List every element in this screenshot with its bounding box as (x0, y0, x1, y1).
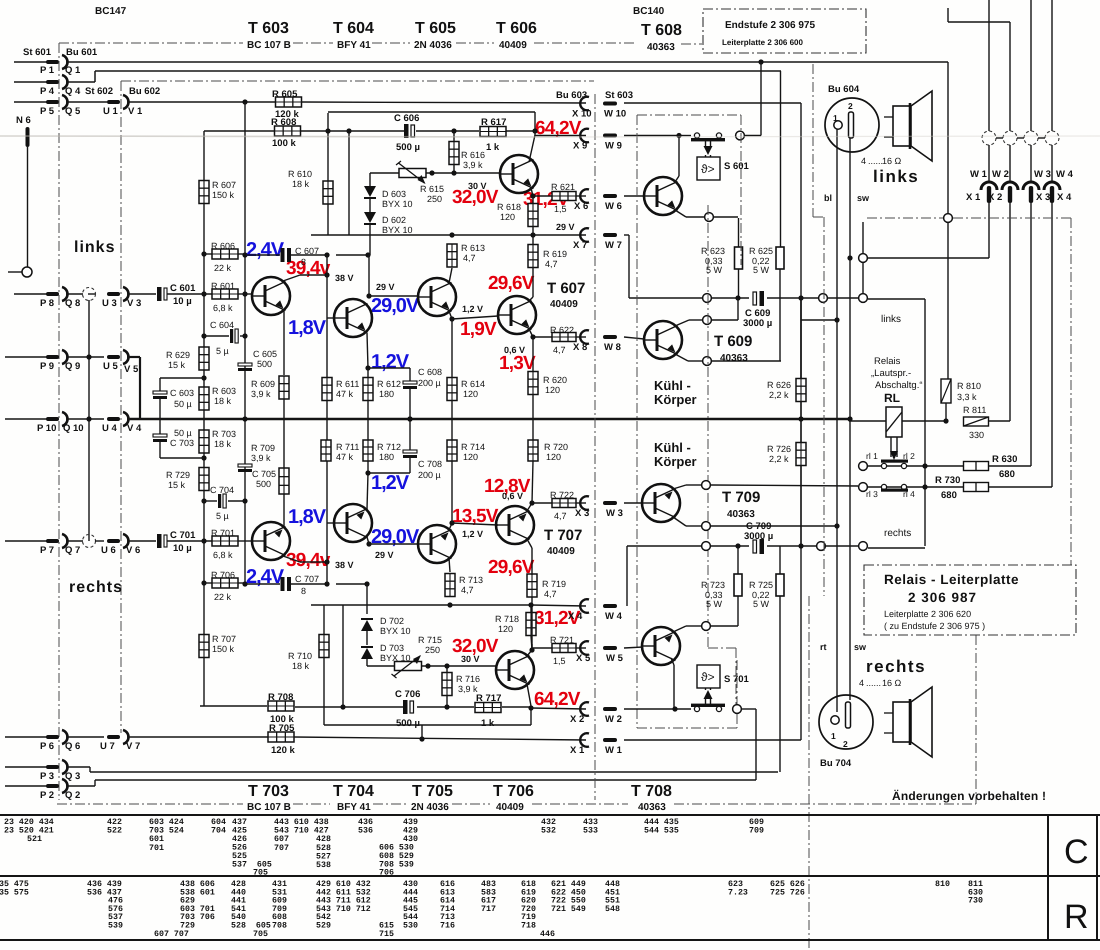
svg-text:W 3: W 3 (606, 508, 623, 519)
svg-text:1,5: 1,5 (553, 656, 566, 666)
svg-text:R 720: R 720 (544, 442, 568, 452)
svg-text:BYX 10: BYX 10 (382, 225, 413, 235)
resistor R719 (531, 644, 533, 650)
wire emitter row to T707 base (452, 523, 498, 525)
wire T705b collector to R713 (449, 558, 450, 572)
open node T709a emitter (702, 522, 711, 531)
vertical X1 top (988, 0, 990, 131)
wire T605 collector to R613 (449, 268, 452, 283)
svg-text:Q 2: Q 2 (65, 790, 80, 801)
chain line heatsink top (637, 114, 741, 116)
wire T707 collector (527, 539, 532, 548)
relay coil RL (886, 407, 902, 437)
node C606 R616 (451, 128, 456, 133)
svg-text:Q 6: Q 6 (65, 741, 80, 752)
svg-text:R 701: R 701 (211, 528, 235, 538)
svg-text:C 604: C 604 (210, 320, 234, 330)
svg-text:40363: 40363 (727, 509, 755, 520)
svg-text:533: 533 (583, 827, 598, 836)
chain line x809 lower (808, 596, 810, 948)
svg-text:721 549: 721 549 (551, 905, 586, 914)
wire T704 collector (367, 537, 369, 544)
wire T704 emitter up (367, 473, 368, 509)
svg-text:sw: sw (854, 642, 867, 652)
wire T703 collector to 38V node bottom (283, 556, 300, 562)
svg-text:V 4: V 4 (127, 423, 142, 434)
svg-text:18 k: 18 k (292, 661, 310, 671)
svg-text:R 722: R 722 (550, 490, 574, 500)
wire output rail top (629, 297, 749, 299)
DIN socket Bu604 (825, 98, 879, 152)
svg-text:5 µ: 5 µ (216, 346, 229, 356)
chain line heatsink right top (740, 115, 742, 265)
svg-text:150 k: 150 k (212, 190, 235, 200)
svg-text:1,8V: 1,8V (288, 317, 327, 339)
svg-text:C 707: C 707 (295, 574, 319, 584)
svg-text:Q 8: Q 8 (65, 298, 80, 309)
node T607 emitter (530, 334, 535, 339)
svg-text:30 V: 30 V (468, 181, 487, 191)
svg-text:rl 3: rl 3 (866, 489, 878, 499)
svg-text:120: 120 (498, 624, 513, 634)
svg-text:R 619: R 619 (543, 249, 567, 259)
wire W1 row (624, 739, 801, 741)
node T707 emitter (529, 500, 534, 505)
svg-text:BC147: BC147 (95, 6, 127, 17)
table bottom line (0, 939, 1100, 941)
wire W5 row to T709b base (624, 647, 643, 648)
svg-text:X 8: X 8 (573, 342, 587, 353)
wire W2 riser to Q2 row (741, 708, 756, 710)
svg-text:3,9 k: 3,9 k (458, 684, 478, 694)
node R708 row x343 (340, 704, 345, 709)
relay board outline links (868, 298, 925, 300)
wire diode string to pot row (366, 659, 368, 666)
wire X2 row (531, 708, 586, 709)
resistor R721 (532, 647, 552, 649)
svg-text:708: 708 (272, 922, 287, 931)
svg-text:120: 120 (463, 452, 478, 462)
svg-text:C 605: C 605 (253, 349, 277, 359)
svg-text:BFY 41: BFY 41 (337, 40, 371, 51)
diode D703 (361, 648, 373, 659)
svg-text:2,4V: 2,4V (246, 239, 285, 261)
resistor R606 (204, 253, 213, 255)
svg-text:Q 1: Q 1 (65, 65, 81, 76)
svg-text:X 10: X 10 (572, 109, 592, 120)
svg-text:1: 1 (833, 113, 838, 123)
svg-text:W 1: W 1 (970, 169, 988, 180)
svg-text:40409: 40409 (499, 40, 527, 51)
svg-text:1,8V: 1,8V (288, 506, 327, 528)
resistor R618 (532, 196, 534, 203)
Relais-Leiterplatte box (864, 565, 1076, 635)
chain line bottom (57, 803, 243, 805)
svg-text:40363: 40363 (647, 42, 675, 53)
node R613 top on 29V bus (449, 232, 454, 237)
svg-text:T 605: T 605 (415, 20, 456, 37)
wire Q7 to U6 (66, 540, 83, 542)
svg-text:C 606: C 606 (394, 113, 419, 124)
svg-text:X 5: X 5 (576, 653, 591, 664)
svg-text:U 3: U 3 (102, 298, 117, 309)
wire x343 riser bottom (342, 605, 344, 707)
capacitor C705 (238, 464, 252, 467)
svg-text:U 1: U 1 (103, 106, 119, 117)
svg-text:725 726: 725 726 (770, 888, 805, 897)
wire V1 rail to R605 (127, 101, 276, 103)
svg-text:R 626: R 626 (767, 380, 791, 390)
resistor R701 (212, 536, 238, 546)
wire x327 column top (326, 255, 328, 419)
svg-text:rechts: rechts (69, 579, 123, 596)
svg-text:U 6: U 6 (101, 545, 116, 556)
node Q10 junction (86, 416, 91, 421)
svg-text:T 609: T 609 (714, 333, 752, 350)
svg-text:C 607: C 607 (295, 246, 319, 256)
svg-text:18 k: 18 k (214, 439, 232, 449)
svg-text:250: 250 (427, 194, 442, 204)
svg-text:R 625: R 625 (749, 246, 773, 256)
chain line right stub bottom (975, 635, 977, 804)
svg-text:P 8: P 8 (40, 298, 54, 309)
wire 29V row bottom to T705 base (369, 543, 418, 545)
svg-text:R 623: R 623 (701, 246, 725, 256)
svg-text:Bu 601: Bu 601 (66, 47, 98, 58)
wire W2 row (624, 708, 691, 710)
wire R615 row (370, 172, 399, 174)
svg-text:X 1: X 1 (570, 745, 585, 756)
node x245 junctions (242, 252, 247, 257)
svg-text:1,2 V: 1,2 V (462, 304, 483, 314)
svg-text:R 712: R 712 (377, 442, 401, 452)
svg-text:T 603: T 603 (248, 20, 289, 37)
svg-text:718: 718 (521, 922, 536, 931)
resistor R630 (964, 462, 989, 471)
node T606 emitter (530, 193, 535, 198)
resistor R603 (199, 387, 209, 410)
svg-text:R 718: R 718 (495, 614, 519, 624)
svg-text:2N 4036: 2N 4036 (411, 802, 449, 813)
svg-text:Körper: Körper (654, 392, 697, 407)
transistor T709 upper (642, 484, 680, 522)
svg-text:BC 107 B: BC 107 B (247, 40, 291, 51)
chain line top (59, 42, 243, 44)
svg-text:446: 446 (540, 930, 555, 939)
wire 29V row to T605 base (369, 295, 418, 297)
svg-text:Kühl -: Kühl - (654, 440, 691, 455)
node bl wire tap (834, 317, 839, 322)
svg-text:W 2: W 2 (605, 714, 622, 725)
node C707 row x367 (364, 581, 369, 586)
resistor R722 (532, 502, 552, 504)
chain line heatsink mid (707, 205, 709, 648)
transistor T708 (496, 651, 534, 689)
svg-text:R 607: R 607 (212, 180, 236, 190)
svg-text:R 706: R 706 (211, 570, 235, 580)
svg-text:8: 8 (301, 586, 306, 596)
wire sw from pin2 (849, 138, 851, 258)
svg-text:R 621: R 621 (551, 182, 575, 192)
resistor R616 (453, 131, 455, 142)
connector P4/Q4 (14, 81, 47, 83)
svg-text:X 4: X 4 (1057, 192, 1072, 203)
svg-text:29,0V: 29,0V (371, 295, 420, 317)
svg-text:50 µ: 50 µ (174, 428, 192, 438)
svg-text:R 715: R 715 (418, 635, 442, 645)
resistor R712 (367, 461, 369, 473)
svg-text:T 709: T 709 (722, 489, 760, 506)
resistor R730 (964, 483, 989, 492)
svg-text:7.23: 7.23 (728, 888, 748, 897)
svg-text:C 705: C 705 (252, 469, 276, 479)
capacitor C605 (238, 363, 252, 366)
svg-text:C 703: C 703 (170, 438, 194, 448)
svg-text:BYX 10: BYX 10 (380, 626, 411, 636)
wire V3 to C601 (127, 293, 156, 295)
transistor T607 (498, 296, 536, 334)
thermal switch S701 (697, 665, 720, 688)
resistor R623 5W (735, 247, 743, 269)
connector P2/Q2 (5, 785, 47, 787)
node W10/W1 crossings (798, 295, 803, 300)
svg-text:1 k: 1 k (486, 142, 500, 153)
svg-text:4,7: 4,7 (463, 253, 476, 263)
svg-text:1,2 V: 1,2 V (462, 529, 483, 539)
svg-text:R 612: R 612 (377, 379, 401, 389)
wire W9 riser to P1 rail (744, 135, 761, 137)
node X1 row (847, 255, 852, 260)
transistor T705 lower (418, 525, 456, 563)
wire collector node to rl3 row (711, 485, 858, 486)
wire T709a collector (673, 485, 686, 489)
svg-text:705: 705 (253, 930, 268, 939)
node 64V (532, 128, 537, 133)
svg-text:R 811: R 811 (963, 405, 986, 415)
svg-text:R 717: R 717 (476, 693, 501, 704)
svg-text:500 µ: 500 µ (396, 142, 420, 153)
svg-text:4: 4 (859, 678, 864, 688)
resistor R707 (199, 635, 209, 658)
svg-text:R 810: R 810 (957, 381, 981, 391)
table right box (1047, 815, 1049, 940)
svg-text:R 705: R 705 (269, 723, 295, 734)
svg-text:Q 7: Q 7 (65, 545, 80, 556)
plug hook X (981, 182, 997, 190)
svg-text:V 6: V 6 (126, 545, 140, 556)
node pot row bottom (425, 663, 430, 668)
svg-text:150 k: 150 k (212, 644, 235, 654)
svg-text:R 723: R 723 (701, 580, 725, 590)
relay armature (890, 437, 892, 457)
wire T709b collector (673, 626, 686, 632)
wire T603 collector to 38V node (283, 275, 300, 281)
svg-text:C 601: C 601 (170, 283, 196, 294)
wire P5 to U1 (66, 101, 107, 103)
wire x327 column bottom (326, 419, 328, 584)
chain line module boundary left (58, 43, 60, 800)
transistor T603 (252, 277, 290, 315)
resistor R611 (322, 378, 332, 401)
svg-text:R 620: R 620 (543, 375, 567, 385)
svg-text:8: 8 (301, 257, 306, 267)
svg-text:5 W: 5 W (753, 265, 770, 275)
wire P1 rail (66, 61, 948, 63)
resistor R607 (199, 181, 209, 204)
svg-text:BC 107 B: BC 107 B (247, 802, 291, 813)
vertical X4 top (1051, 0, 1053, 131)
svg-text:W 2: W 2 (992, 169, 1009, 180)
resistor R710 (319, 635, 329, 658)
svg-text:530: 530 (403, 922, 418, 931)
node V1 rail x245 (242, 99, 247, 104)
svg-text:Bu 604: Bu 604 (828, 84, 860, 95)
svg-text:3,9 k: 3,9 k (251, 453, 271, 463)
wire X3 down to R630 (1030, 203, 1032, 466)
svg-text:W 1: W 1 (605, 745, 623, 756)
resistor R725 5W (779, 546, 781, 574)
wire T605 emitter node (449, 311, 452, 319)
svg-text:Bu 602: Bu 602 (129, 86, 160, 97)
wire R708 row (266, 705, 268, 707)
svg-text:250: 250 (425, 645, 440, 655)
svg-text:P 6: P 6 (40, 741, 54, 752)
svg-text:R 605: R 605 (272, 89, 298, 100)
svg-text:Körper: Körper (654, 454, 697, 469)
svg-text:R 622: R 622 (550, 325, 574, 335)
svg-text:C 708: C 708 (418, 459, 442, 469)
connector U3/V3 (107, 292, 120, 296)
svg-text:120: 120 (545, 385, 560, 395)
svg-text:P 4: P 4 (40, 86, 55, 97)
transistor T704 (334, 504, 372, 542)
svg-text:P 9: P 9 (40, 361, 54, 372)
svg-text:ϑ>: ϑ> (701, 162, 715, 176)
svg-text:W 3: W 3 (1034, 169, 1051, 180)
node V7 row riser (419, 736, 424, 741)
connector X 5/W 5 (580, 641, 589, 655)
wire emitter row to T607 base (452, 316, 498, 319)
svg-text:1: 1 (831, 731, 836, 741)
diode D603 (364, 186, 376, 197)
connector X 2/W 2 (580, 702, 589, 716)
svg-text:R 709: R 709 (251, 443, 275, 453)
svg-text:180: 180 (379, 389, 394, 399)
vertical X2 top (1009, 22, 1011, 131)
svg-text:X 3: X 3 (1036, 192, 1050, 203)
node R608 row x328 (325, 128, 330, 133)
svg-text:U 7: U 7 (100, 741, 115, 752)
wire T604 base (327, 317, 334, 319)
svg-text:C 706: C 706 (395, 689, 420, 700)
svg-text:Bu 704: Bu 704 (820, 758, 852, 769)
capacitor C704 (202, 500, 217, 502)
svg-text:200 µ: 200 µ (418, 470, 441, 480)
connector U4/V4 (107, 417, 120, 421)
vertical X1 mid (988, 145, 990, 183)
node sw wire rail (847, 416, 852, 421)
svg-text:R 629: R 629 (166, 350, 190, 360)
svg-text:RL: RL (884, 391, 900, 405)
svg-text:Leiterplatte 2 306 620: Leiterplatte 2 306 620 (884, 609, 971, 619)
open node rail2 821 (817, 542, 826, 551)
svg-text:15 k: 15 k (168, 360, 186, 370)
capacitor C701 (157, 534, 162, 548)
wire collector node to rail (712, 319, 738, 321)
svg-text:T 707: T 707 (544, 527, 582, 544)
svg-text:521: 521 (27, 835, 42, 844)
svg-text:W 7: W 7 (605, 240, 622, 251)
diode D602 (364, 212, 376, 223)
resistor R705 (268, 732, 294, 742)
open node T609 emitter (703, 357, 712, 366)
Endstufe title box (703, 9, 866, 53)
svg-text:47 k: 47 k (336, 389, 354, 399)
wire Q6 to U7 (66, 736, 104, 738)
wire x328 column (327, 113, 329, 181)
wire T607 emitter to X8 node (529, 329, 533, 337)
svg-text:rechts: rechts (866, 657, 926, 676)
svg-text:T 706: T 706 (493, 783, 534, 800)
wire x324 column bottom (323, 605, 325, 635)
resistor R706 (204, 582, 213, 584)
svg-text:R 710: R 710 (288, 651, 312, 661)
chain line y218 (867, 217, 944, 219)
svg-text:R 611: R 611 (336, 379, 359, 389)
svg-text:„Lautspr.-: „Lautspr.- (871, 368, 911, 379)
open node left input (8, 271, 22, 273)
svg-text:680: 680 (999, 469, 1015, 480)
wire T607 collector (529, 297, 533, 301)
svg-text:539: 539 (108, 922, 123, 931)
resistor R718 (530, 605, 532, 613)
wire bottom bridge y725 (324, 724, 531, 726)
wire R601 to T603 base (238, 293, 252, 295)
svg-text:R 719: R 719 (542, 579, 566, 589)
svg-text:T 607: T 607 (547, 280, 585, 297)
capacitor C604 (204, 335, 229, 337)
svg-text:St 602: St 602 (85, 86, 113, 97)
wire T608 emitter to open node (675, 210, 686, 217)
svg-text:3000 µ: 3000 µ (743, 318, 772, 329)
wire emitter node to R625 column (712, 360, 781, 362)
connector X 6/W 6 (580, 189, 589, 203)
svg-text:V 3: V 3 (127, 298, 141, 309)
capacitor C703 (159, 419, 161, 434)
svg-text:16 Ω: 16 Ω (882, 678, 902, 688)
svg-text:D 602: D 602 (382, 215, 406, 225)
diode string bottom (366, 584, 368, 614)
node rail2 R723 (735, 543, 740, 548)
svg-text:701: 701 (149, 844, 164, 853)
svg-text:......: ...... (866, 678, 881, 688)
svg-text:10 µ: 10 µ (173, 543, 192, 554)
resistor R720 (532, 461, 533, 503)
svg-text:29 V: 29 V (375, 550, 394, 560)
svg-text:709: 709 (749, 827, 764, 836)
connector U1/V1 (107, 100, 120, 104)
svg-text:2N 4036: 2N 4036 (414, 40, 452, 51)
svg-text:29 V: 29 V (376, 282, 395, 292)
resistor R729 (199, 468, 209, 491)
svg-text:3,9 k: 3,9 k (463, 160, 483, 170)
chain line heatsink bottom (637, 727, 737, 729)
open node X1 row pin (859, 254, 868, 263)
plug break dashed circles (982, 131, 996, 145)
open node T609 collector (703, 316, 712, 325)
svg-text:W 4: W 4 (1056, 169, 1074, 180)
connector P10/Q10 (5, 418, 47, 420)
